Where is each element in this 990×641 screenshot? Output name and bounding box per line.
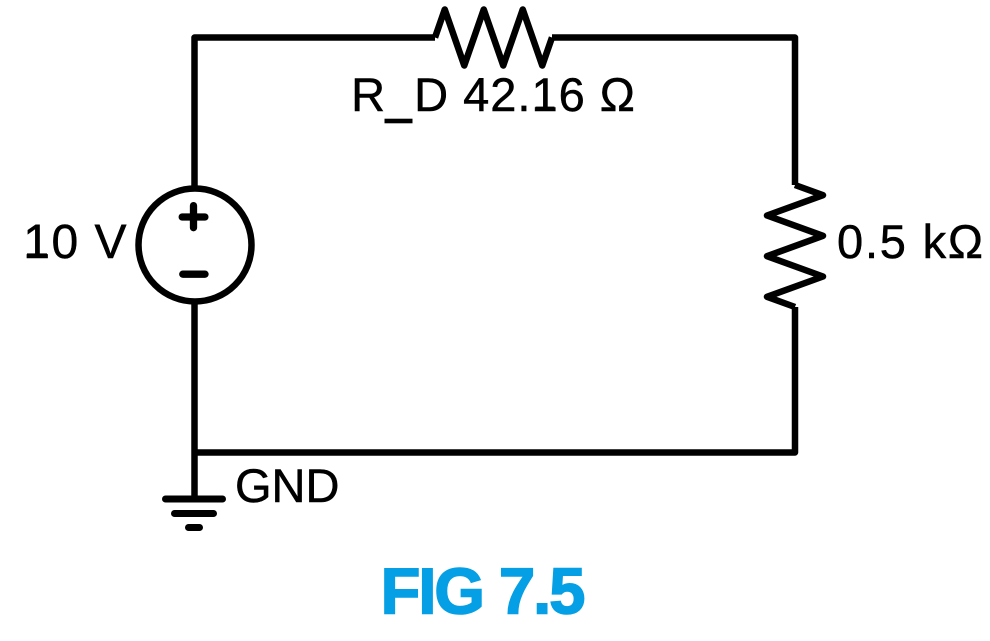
wire left-lower (source bottom to ground) [191,301,198,500]
resistor R_D [435,10,552,66]
label 10 V [23,216,128,269]
svg-text:GND: GND [235,459,339,512]
voltage source V1 [139,189,252,302]
svg-text:10 V: 10 V [23,216,128,269]
wire top-left (source top to R_D) [195,38,436,190]
ground [166,499,223,528]
label R_D 42.16 Ω [351,68,636,123]
wire top-right (R_D to right resistor) [552,38,795,186]
svg-text:FIG 7.5: FIG 7.5 [381,555,585,628]
svg-text:R D 42.16 Ω: R D 42.16 Ω [351,68,636,121]
wire bottom (right resistor to ground node) [195,307,796,453]
svg-text:0.5 kΩ: 0.5 kΩ [837,215,985,268]
resistor R2 [767,185,823,307]
